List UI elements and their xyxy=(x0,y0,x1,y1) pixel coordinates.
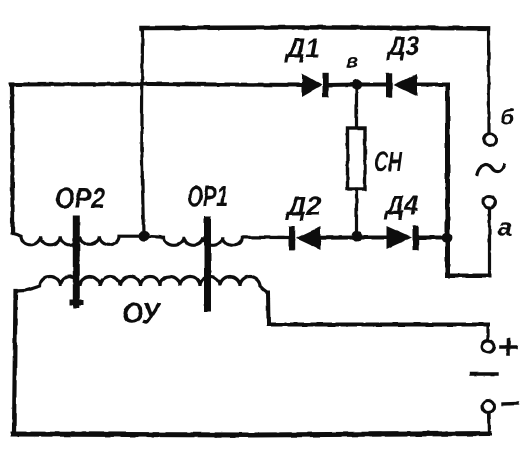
battery separator dash xyxy=(471,372,497,375)
wire OY right end step down xyxy=(266,293,271,324)
junction dot at resistor bottom on lower diode row xyxy=(352,231,363,242)
terminal б circle xyxy=(484,134,496,146)
wire down to plus terminal xyxy=(486,325,489,341)
winding ОР1 xyxy=(149,237,290,246)
wire right vertical joining D3 and D4 outputs xyxy=(445,85,450,276)
wire from D4 to right vertical xyxy=(418,236,448,240)
node в junction dot xyxy=(352,79,363,90)
diode Д1 xyxy=(302,73,329,97)
wire lower-left vertical up to OY winding xyxy=(14,291,16,434)
label − sign xyxy=(503,402,517,406)
diode Д3 xyxy=(386,73,418,97)
wire top horizontal xyxy=(142,27,488,28)
wire vertical from top wire down to winding midpoint node xyxy=(142,28,144,234)
svg-text:Д3: Д3 xyxy=(386,31,419,61)
wire between center junction and D4 xyxy=(357,236,387,240)
wire from minus terminal down xyxy=(487,413,491,434)
magnetic core bar left xyxy=(73,219,80,305)
label + sign xyxy=(501,340,516,355)
magnetic core bar right xyxy=(204,220,211,308)
resistor СН body xyxy=(348,128,366,189)
diode Д4 xyxy=(387,226,419,250)
wire bottom of right loop xyxy=(448,274,490,278)
wire between D1 and node v xyxy=(328,83,355,88)
wire from D3 to right vertical xyxy=(417,83,448,87)
wire left vertical from upper row down to winding OP2 xyxy=(10,85,15,234)
svg-text:СН: СН xyxy=(374,146,403,177)
terminal − circle xyxy=(482,401,494,413)
junction dot at D4 output xyxy=(442,232,453,243)
wire from terminal a down xyxy=(488,208,491,275)
wire between D2 and center junction xyxy=(320,236,355,240)
terminal а circle xyxy=(483,196,495,208)
wire from resistor down to lower row xyxy=(355,189,358,234)
wire bottom horizontal xyxy=(13,434,490,436)
svg-text:Д2: Д2 xyxy=(285,191,321,221)
winding ОУ xyxy=(16,277,268,293)
AC source tilde symbol xyxy=(477,165,505,174)
svg-text:в: в xyxy=(346,51,358,73)
wire vertical from top wire down to terminal b xyxy=(487,28,491,133)
wire upper diode row from left edge xyxy=(11,84,302,85)
svg-text:ОР2: ОР2 xyxy=(55,183,105,215)
svg-text:Д4: Д4 xyxy=(384,190,418,220)
junction dot between OP2 and OP1 xyxy=(138,230,149,241)
wire between node v and D3 xyxy=(357,83,387,87)
diode Д2 xyxy=(289,226,321,250)
wire from node v down to resistor xyxy=(355,86,358,128)
svg-text:б: б xyxy=(500,105,515,130)
wire horizontal to plus terminal xyxy=(269,323,489,327)
terminal + circle xyxy=(482,341,494,353)
winding ОР2 xyxy=(13,233,138,245)
svg-text:ОУ: ОУ xyxy=(122,298,162,330)
svg-text:Д1: Д1 xyxy=(284,33,320,63)
svg-text:а: а xyxy=(498,212,512,242)
svg-text:ОР1: ОР1 xyxy=(187,181,228,213)
